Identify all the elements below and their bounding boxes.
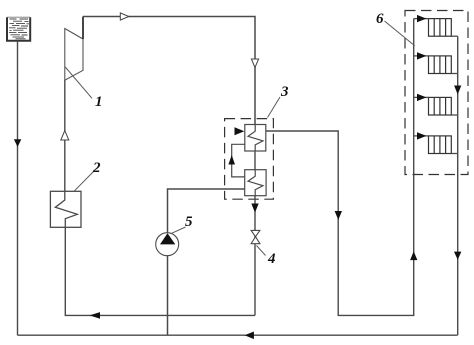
label 1 [95,94,103,111]
wire: tank down to bottom line [17,41,19,336]
arrow right into upper exchanger [235,127,245,135]
wire: turbine inlet line down to evaporator 2 [64,80,66,191]
open arrow down on right vertical [251,59,258,68]
open arrow right on top wire [120,13,128,20]
wire: top line to condenser unit [83,17,255,125]
radiator block 6 : dashed box [405,11,468,175]
water tank (heat source) [7,17,30,41]
lower heat exchanger of unit 3 [245,170,266,196]
leader 6 [385,21,415,46]
radiator 4 [429,136,452,154]
leader 4 [257,246,266,256]
wire: pump to lower exchanger [168,189,245,233]
outlet radiator 4 [451,153,457,155]
outlet radiator 3 [451,114,457,116]
radiator 3 [429,97,452,115]
heat exchanger 2 (evaporator) [50,191,81,227]
valve 4 [251,230,260,243]
pump 5 [156,233,179,256]
wire: pump down to bottom line [167,256,169,336]
inlet arrow radiator 4 [414,135,429,137]
condenser unit 3 : dashed box [225,119,274,200]
arrow down on tank line [14,139,21,147]
leader 2 [74,171,95,192]
arrow down below unit 3 [251,204,258,213]
leader 1 [65,67,92,99]
wire: heating supply from upper exchanger to radiators [266,19,414,316]
inlet arrow radiator 1 [414,18,429,20]
label 6 [376,11,384,28]
turbine 1 [65,29,83,81]
inlet arrow radiator 2 [414,55,429,57]
leader 3 [268,97,281,118]
arrow down on return (bottom) [454,252,461,260]
wire: bottom return line [18,334,458,336]
open arrow up above evaporator [61,131,69,141]
outlet radiator 2 [451,73,457,75]
wire: evaporator 2 down and right to valve line [65,227,255,315]
arrow left on bottom line [245,332,254,340]
leader 5 [171,227,186,234]
outlet radiator 1 [451,35,457,37]
arrow up on riser to radiators [410,251,417,260]
arrow left on lower connecting line [90,312,100,319]
radiator 1 [429,19,452,37]
label 3 [281,84,289,101]
inlet arrow radiator 3 [414,96,429,98]
arrow down on return (top) [454,86,461,95]
wire: radiator return line [457,36,459,335]
wire: unit 3 down through valve to lower line [254,196,256,316]
label 4 [268,251,276,268]
arrow up on internal loop [228,155,235,165]
wire: between the two exchangers [254,151,256,170]
label 2 [93,160,101,177]
label 5 [185,214,193,231]
internal loop of unit 3 [232,144,245,177]
wire: turbine outlet up to top [82,17,84,40]
arrow down on supply drop [335,211,342,220]
upper heat exchanger of unit 3 [245,125,266,152]
radiator 2 [429,56,452,74]
